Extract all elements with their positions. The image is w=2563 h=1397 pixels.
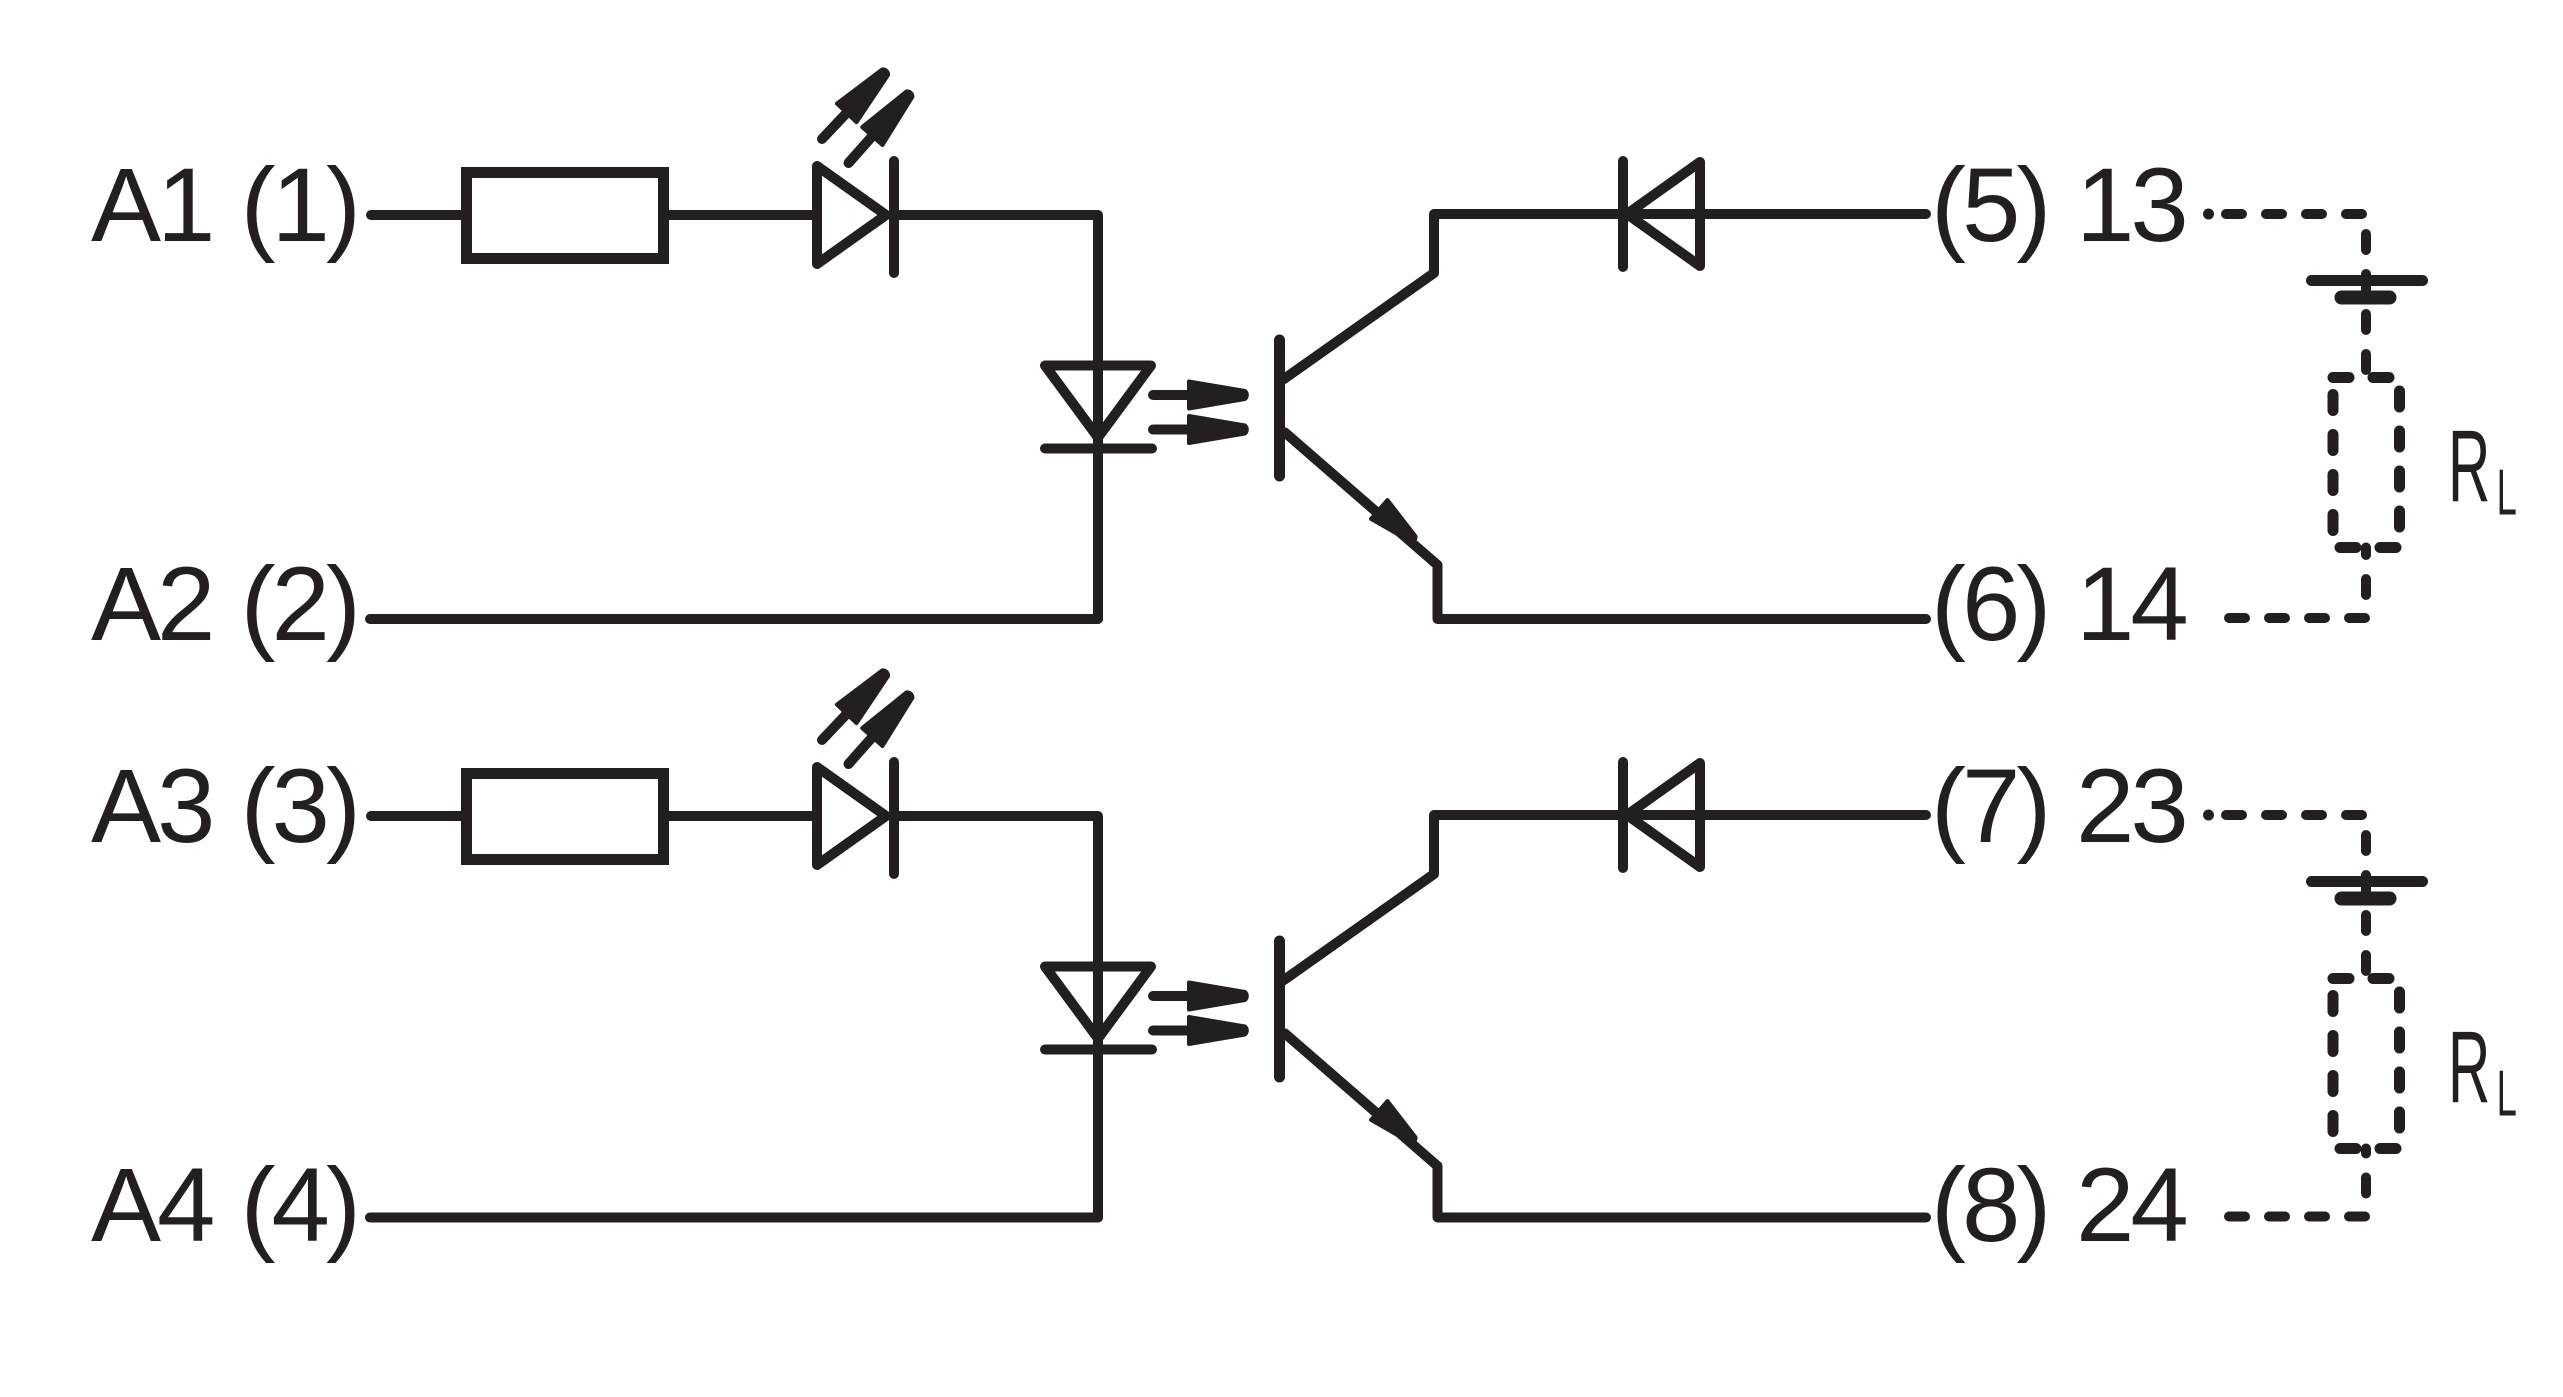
battery B2 (external supply) <box>2312 876 2423 887</box>
diode D2c (output protection diode) <box>1618 762 1628 868</box>
LED D1a (input indicator LED) <box>817 166 886 264</box>
svg-text:R: R <box>2448 409 2488 523</box>
LED D1a emission arrows <box>812 62 896 149</box>
svg-text:(6): (6) <box>1931 546 2047 663</box>
svg-text:L: L <box>2497 1057 2516 1130</box>
phototransistor Q2 collector wire to output diode <box>1284 815 1926 980</box>
phototransistor Q2 base bar <box>1274 941 1285 1077</box>
wire resistor to LED D2a <box>669 811 817 821</box>
svg-text:A1: A1 <box>91 147 211 264</box>
phototransistor Q1 emitter arrowhead <box>1371 500 1423 549</box>
svg-text:A2: A2 <box>91 546 211 663</box>
LED D2a emission arrows <box>812 663 896 750</box>
svg-text:(5): (5) <box>1931 147 2047 264</box>
phototransistor Q1 base bar <box>1274 340 1285 476</box>
dashed wire 13 to external load supply <box>2203 209 2214 220</box>
wire A3 to resistor <box>371 811 466 821</box>
resistor R2 (series input resistor) <box>467 774 664 860</box>
resistor R1 (series input resistor) <box>467 173 664 259</box>
svg-text:14: 14 <box>2076 546 2186 663</box>
svg-text:24: 24 <box>2076 1147 2186 1264</box>
svg-text:L: L <box>2497 456 2516 529</box>
svg-text:A3: A3 <box>91 748 211 865</box>
svg-text:23: 23 <box>2076 748 2185 865</box>
load resistor RL (dashed, external) <box>2333 979 2400 1149</box>
wire A4 to opto LED junction <box>370 1213 1098 1223</box>
phototransistor Q1 emitter wire <box>1285 433 1926 620</box>
wire LED to corner, down through opto LED to A2 node <box>894 215 1098 619</box>
dashed wire load to 24 <box>2229 1149 2366 1217</box>
svg-text:R: R <box>2448 1010 2488 1124</box>
battery B1 (external supply) <box>2312 275 2423 286</box>
wire LED to corner, down through opto LED to A4 node <box>894 816 1098 1218</box>
wire A2 to opto LED junction <box>370 614 1098 624</box>
svg-text:(3): (3) <box>241 748 357 865</box>
dashed wire 23 to external load supply <box>2203 810 2214 821</box>
diode D1c (output protection diode) <box>1618 161 1628 267</box>
svg-text:(4): (4) <box>241 1147 357 1264</box>
opto light coupling arrows <box>1153 983 1247 1010</box>
wire resistor to LED D1a <box>669 210 817 220</box>
phototransistor Q2 emitter arrowhead <box>1371 1101 1423 1150</box>
opto-coupler emitter LED D2b <box>1045 967 1151 1039</box>
load resistor RL (dashed, external) <box>2333 378 2400 548</box>
svg-text:(2): (2) <box>241 546 357 663</box>
phototransistor Q2 emitter wire <box>1285 1034 1926 1218</box>
opto-coupler emitter LED D1b <box>1045 366 1151 438</box>
opto light coupling arrows <box>1153 382 1247 409</box>
LED D2a (input indicator LED) <box>817 767 886 865</box>
dashed wire load to 14 <box>2229 548 2366 619</box>
svg-text:(1): (1) <box>241 147 357 264</box>
wire A1 to resistor <box>371 210 466 220</box>
phototransistor Q1 collector wire to output diode <box>1284 214 1926 379</box>
svg-text:13: 13 <box>2076 147 2185 264</box>
svg-text:(8): (8) <box>1931 1147 2047 1264</box>
svg-text:(7): (7) <box>1931 748 2047 865</box>
svg-text:A4: A4 <box>91 1147 213 1264</box>
